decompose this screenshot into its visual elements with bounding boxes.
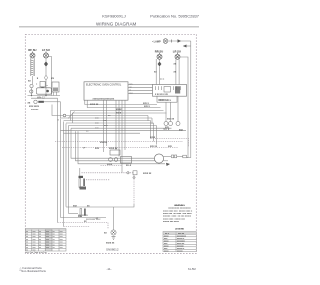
svg-text:△ Functional Parts: △ Functional Parts	[20, 266, 43, 270]
header rule	[19, 26, 199, 28]
connector pair	[172, 155, 174, 158]
wire	[121, 100, 123, 165]
wire color table	[25, 229, 66, 251]
wire bottom run	[61, 217, 107, 219]
svg-text:KSF9800XLJ: KSF9800XLJ	[102, 13, 126, 18]
legend table	[163, 232, 196, 252]
plug arrow	[183, 45, 187, 48]
wire S2 to bus	[56, 92, 58, 96]
svg-text:xxx: xxx	[33, 236, 36, 238]
svg-text:xx: xx	[53, 231, 55, 233]
svg-text:xx: xx	[39, 247, 41, 249]
motor lead	[164, 160, 168, 162]
svg-text:ELECTRONIC OVEN CONTROL: ELECTRONIC OVEN CONTROL	[86, 84, 122, 87]
wire	[178, 59, 180, 84]
svg-text:xxx x: xxx x	[143, 103, 149, 105]
wire	[66, 204, 134, 207]
wire corner	[69, 213, 79, 215]
wire	[68, 126, 70, 214]
connector	[183, 155, 187, 158]
svg-text:xx: xx	[53, 234, 55, 236]
electrode E3	[176, 122, 180, 126]
wire	[177, 96, 179, 121]
svg-text:xxx: xxx	[33, 231, 36, 233]
harness connector CN1	[63, 114, 66, 117]
U1 right pin labels	[130, 84, 133, 95]
surface unit P1	[30, 52, 35, 59]
wire	[45, 58, 47, 61]
wire	[128, 89, 153, 91]
dashed bottom wire 2	[64, 226, 91, 228]
warning note block	[163, 204, 193, 230]
valve link mark	[41, 87, 44, 88]
legend text	[164, 233, 187, 253]
wire corner to motor	[71, 128, 155, 158]
broil ignitor IG2	[80, 209, 86, 217]
V1 plunger dot	[46, 90, 49, 93]
vertical bundle wires	[60, 119, 62, 218]
svg-text:xxxx: xxxx	[150, 137, 156, 139]
svg-text:xxx xxxx: xxx xxxx	[29, 105, 40, 108]
dashed ignitor wire	[82, 172, 135, 174]
svg-text:xxx: xxx	[46, 244, 49, 246]
svg-text:• LAMP: • LAMP	[152, 41, 161, 44]
oven ignitor IG1	[79, 176, 87, 190]
wire	[64, 132, 141, 134]
svg-text:xxxxxx: xxxxxx	[31, 109, 39, 111]
svg-text:xxx: xxx	[95, 147, 100, 150]
dashed ignitor wire 2	[86, 179, 110, 181]
wire down right side	[187, 41, 191, 158]
wire	[52, 105, 63, 116]
svg-text:x xx xx x xx: x xx xx x xx	[155, 94, 168, 96]
wire	[124, 100, 126, 150]
svg-text:xx: xx	[26, 242, 28, 244]
legend table header fill	[163, 232, 196, 235]
svg-text:RR SU: RR SU	[155, 49, 163, 53]
svg-text:xxx: xxx	[33, 247, 36, 249]
check valve D1	[44, 61, 48, 67]
check valve D3	[158, 62, 162, 67]
svg-text:xxxxxxxxx xxxxxxxxx: xxxxxxxxx xxxxxxxxx	[168, 208, 191, 210]
svg-text:xx: xx	[26, 234, 28, 236]
svg-text:61-5M: 61-5M	[188, 267, 196, 271]
wire	[128, 92, 153, 94]
oven control U1	[84, 82, 128, 100]
wire	[52, 101, 61, 103]
wire	[159, 59, 161, 61]
svg-text:WARNING: WARNING	[174, 204, 185, 207]
svg-text:xx: xx	[39, 242, 41, 244]
latch motor M1	[154, 154, 163, 163]
svg-text:xxx: xxx	[46, 239, 49, 241]
wire	[165, 102, 167, 121]
A1 internal box	[164, 87, 171, 93]
wire	[65, 124, 67, 207]
svg-text:xx: xx	[26, 247, 28, 249]
svg-text:xxxx xx: xxxx xx	[143, 173, 152, 175]
wire down from band	[151, 118, 153, 124]
wire down from band	[156, 126, 158, 145]
svg-text:xxx x: xxx x	[144, 106, 150, 108]
connector on wire	[127, 172, 129, 174]
dashed wire	[151, 139, 189, 148]
S2 contact smear	[53, 88, 58, 92]
wire	[64, 120, 151, 122]
svg-text:xxx: xxx	[60, 242, 63, 244]
wire color table header fill	[25, 229, 66, 232]
table text	[26, 231, 63, 252]
surface unit P3	[157, 53, 162, 60]
ground	[112, 237, 116, 240]
svg-text:xxx: xxx	[60, 247, 63, 249]
wire	[106, 100, 108, 146]
wire	[60, 102, 62, 118]
wire	[66, 122, 154, 124]
wire	[63, 122, 65, 227]
svg-text:xxx: xxx	[60, 234, 63, 236]
svg-text:MODULE x: MODULE x	[159, 99, 172, 102]
dashed wire	[55, 141, 183, 143]
wire	[61, 130, 187, 132]
electrode E2	[169, 122, 173, 126]
wire color table column smear	[45, 229, 52, 251]
plug connector J1	[178, 39, 182, 43]
latch switch box	[110, 150, 120, 155]
junction dot	[31, 95, 32, 96]
dashed bottom wire	[58, 223, 109, 229]
svg-text:xx: xx	[26, 244, 28, 246]
wire corner	[78, 131, 165, 164]
wire down from band	[153, 123, 155, 142]
wire corner	[76, 131, 155, 161]
dashed wire	[62, 147, 178, 149]
svg-text:xxx xx: xxx xx	[167, 118, 175, 120]
wire with label	[31, 97, 58, 99]
node circle	[30, 84, 33, 87]
surface unit P4	[175, 53, 180, 60]
oven lamp L2 feed	[113, 207, 115, 230]
svg-text:xx: xx	[39, 234, 41, 236]
spark switch block S1	[40, 82, 45, 87]
surface unit P2	[44, 52, 49, 59]
wire corner	[71, 111, 164, 121]
wire pair P3	[155, 59, 157, 85]
svg-text:xxxxx: xxxxx	[177, 250, 183, 252]
wire U1 to spark module	[128, 83, 153, 85]
svg-text:Publication No. 5995C2837: Publication No. 5995C2837	[150, 13, 199, 18]
fuse F1	[34, 100, 37, 103]
cabinet dashed outline	[25, 34, 196, 253]
junction dot	[45, 95, 46, 96]
svg-text:xxx: xxx	[60, 244, 63, 246]
wire corner	[73, 113, 167, 123]
connector block	[133, 171, 137, 175]
wire	[168, 40, 191, 42]
oven sensor wires from U1	[103, 100, 105, 152]
svg-text:* Non-Illustrated Parts: * Non-Illustrated Parts	[20, 269, 47, 273]
svg-text:xxx: xxx	[46, 231, 49, 233]
svg-text:LF SU: LF SU	[42, 48, 50, 52]
svg-text:xx: xx	[39, 239, 41, 241]
svg-text:xx: xx	[26, 236, 28, 238]
svg-text:xx−x: xx−x	[126, 165, 132, 167]
wire down from band	[150, 121, 152, 139]
latch block	[121, 157, 132, 164]
wire	[69, 125, 157, 127]
svg-text:WH-12: WH-12	[37, 97, 45, 100]
connector node	[133, 176, 135, 178]
wire bundle horizontal	[66, 115, 148, 117]
wire branch from P2	[49, 57, 52, 96]
svg-text:RF SU: RF SU	[28, 48, 36, 52]
A1 internal terminals	[156, 86, 181, 90]
svg-text:xxxxx xxx xxxx: xxxxx xxx xxxx	[163, 221, 180, 223]
wire	[170, 102, 172, 121]
svg-text:-11-: -11-	[106, 267, 111, 271]
svg-text:WIRING DIAGRAM: WIRING DIAGRAM	[96, 22, 137, 27]
svg-text:xxxxxxxx xxxx: xxxxxxxx xxxx	[86, 219, 101, 221]
plug stub	[184, 45, 191, 47]
wire	[61, 117, 153, 119]
svg-text:xxxx xx: xxxx xx	[90, 104, 99, 106]
svg-text:xxx: xxx	[33, 239, 36, 241]
svg-text:SN08012: SN08012	[106, 247, 119, 251]
svg-text:xxx: xxx	[46, 234, 49, 236]
svg-text:xxxx: xxxx	[107, 164, 113, 166]
wire	[121, 166, 123, 173]
svg-text:››: ››	[58, 119, 60, 122]
svg-text:xxx: xxx	[46, 247, 49, 249]
A1 dark contact	[175, 86, 180, 93]
wire pair P4	[175, 59, 177, 84]
bus wire	[28, 95, 61, 97]
connector tick	[171, 40, 173, 43]
svg-text:xxx: xxx	[33, 242, 36, 244]
svg-text:LEGEND: LEGEND	[175, 228, 185, 230]
wire	[71, 127, 172, 129]
wire	[128, 86, 153, 88]
svg-text:xxx: xxx	[33, 244, 36, 246]
dashed sensor wire	[101, 165, 123, 167]
wire	[118, 100, 120, 156]
wire branch to right bus	[180, 57, 188, 158]
svg-text:xxx: xxx	[60, 239, 63, 241]
wire	[31, 88, 33, 96]
dashed vertical wire	[133, 175, 135, 204]
wire	[44, 101, 52, 103]
svg-text:LR SU: LR SU	[173, 49, 181, 53]
oven lamp L2	[111, 230, 116, 235]
motor lead	[164, 155, 171, 157]
svg-text:xx: xx	[39, 236, 41, 238]
svg-text:xx: xx	[53, 236, 55, 238]
svg-text:xxxx xx: xxxx xx	[109, 148, 118, 150]
wire	[45, 80, 47, 96]
switch node	[114, 158, 118, 162]
wire BK to module	[85, 100, 157, 104]
svg-text:xx: xx	[53, 244, 55, 246]
svg-text:xxx: xxx	[33, 234, 36, 236]
pilot node	[30, 90, 33, 93]
spark module A1	[153, 85, 187, 97]
wire	[57, 98, 59, 222]
valve body V1	[37, 88, 52, 94]
svg-text:xx: xx	[26, 231, 28, 233]
svg-text:xx: xx	[53, 247, 55, 249]
svg-text:xxxxxxxxxxxxxxxxxx: xxxxxxxxxxxxxxxxxx	[93, 97, 115, 100]
check valve D2	[44, 75, 47, 80]
wire W to module	[87, 100, 160, 107]
wire	[32, 76, 34, 84]
oven lamp L1	[163, 39, 168, 44]
motor arrow mark	[166, 163, 170, 166]
fuse F1 body	[38, 101, 44, 103]
svg-text:xxx: xxx	[46, 236, 49, 238]
wire	[45, 67, 47, 75]
electrode E1	[164, 122, 168, 126]
svg-text:xx x | xx | xxx x xx | xx: xx x | xx | xxx x xx | xx	[26, 252, 48, 254]
svg-text:xx: xx	[53, 239, 55, 241]
wire	[159, 67, 161, 85]
svg-text:xxx xx: xxx xx	[150, 146, 158, 148]
crossover wire	[68, 112, 75, 119]
heater coil ladder of P1	[31, 58, 34, 76]
wire	[177, 155, 183, 157]
wire	[115, 100, 117, 150]
svg-text:xx: xx	[39, 244, 41, 246]
switch node	[109, 158, 113, 162]
svg-text:xxx: xxx	[60, 236, 63, 238]
wire S2 to bus	[53, 92, 55, 96]
svg-text:xxxx xx: xxxx xx	[106, 243, 115, 245]
svg-text:xxx: xxx	[60, 231, 63, 233]
spark switch block S2	[52, 82, 59, 92]
svg-text:xxx: xxx	[46, 242, 49, 244]
wire from bake element	[79, 168, 81, 176]
svg-text:xx: xx	[53, 242, 55, 244]
svg-text:xx: xx	[26, 239, 28, 241]
spark module label box	[157, 96, 177, 102]
svg-text:xx: xx	[39, 231, 41, 233]
wire down from band	[147, 116, 149, 122]
